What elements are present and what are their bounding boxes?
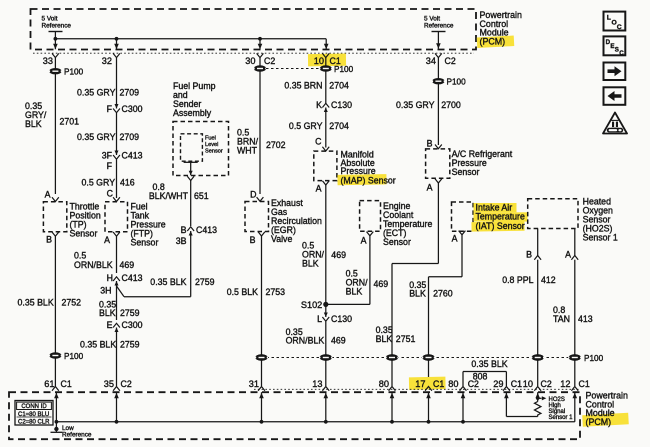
svg-text:469: 469 — [374, 279, 389, 289]
svg-text:2704: 2704 — [329, 81, 349, 91]
svg-text:C2: C2 — [468, 379, 479, 389]
svg-text:C: C — [617, 24, 622, 31]
svg-text:B: B — [46, 235, 52, 245]
wire pin 80 into PCM — [391, 392, 393, 422]
node 5V bus tap pin30 — [258, 37, 262, 41]
svg-text:BLK: BLK — [376, 334, 393, 344]
bottom PCM module box — [9, 392, 580, 439]
svg-text:Sensor: Sensor — [70, 229, 98, 239]
svg-text:TAN: TAN — [553, 314, 570, 324]
wire 0.8 PPL 412 — [537, 260, 539, 386]
svg-text:P100: P100 — [584, 354, 604, 363]
pin 32 terminal — [113, 53, 120, 57]
wire 0.35 GRY/BLK 2701 upper segment — [54, 58, 56, 194]
wire 0.8 BLK/WHT 651 — [190, 181, 192, 227]
ECT sensor box — [360, 201, 381, 232]
svg-text:2700: 2700 — [441, 100, 461, 110]
svg-text:C2=80 CLR: C2=80 CLR — [18, 419, 50, 425]
svg-text:2709: 2709 — [120, 88, 140, 98]
svg-text:C1: C1 — [511, 379, 522, 389]
wire 0.5 ORN/BLK 469 from ECT to S102 — [369, 236, 371, 305]
svg-text:0.35 BLK: 0.35 BLK — [471, 359, 507, 369]
svg-text:Level: Level — [205, 142, 218, 148]
fuel level sensor inner box — [181, 134, 203, 161]
svg-text:3B: 3B — [176, 236, 187, 246]
svg-text:L: L — [317, 314, 322, 324]
svg-text:(PCM): (PCM) — [586, 417, 612, 427]
wire 0.35 GRY 2709 segment 2 — [116, 113, 118, 155]
svg-text:A: A — [104, 235, 110, 245]
pin 33 terminal — [52, 53, 59, 57]
svg-text:0.35 BLK: 0.35 BLK — [18, 298, 54, 308]
svg-text:C2: C2 — [541, 379, 552, 389]
wire 5V ref left drop — [54, 32, 56, 39]
svg-text:BLK: BLK — [25, 119, 42, 129]
svg-text:10: 10 — [523, 379, 533, 389]
svg-text:3H: 3H — [100, 286, 111, 296]
svg-text:(PCM): (PCM) — [480, 36, 506, 46]
svg-text:P100: P100 — [64, 68, 84, 77]
svg-text:10: 10 — [314, 56, 324, 66]
svg-text:0.8 PPL: 0.8 PPL — [502, 275, 533, 285]
svg-text:B: B — [427, 139, 433, 149]
svg-text:B: B — [526, 250, 532, 260]
throttle position sensor U-TP box — [43, 202, 66, 232]
svg-text:31: 31 — [249, 379, 259, 389]
wire 0.35 BLK 2760 (IAT to pin 17) — [461, 235, 463, 277]
svg-text:K: K — [316, 100, 322, 110]
svg-text:2704: 2704 — [329, 121, 349, 131]
svg-text:C413: C413 — [196, 225, 217, 235]
label Powertrain Control Module (PCM) bottom-right, PCM highlighted — [582, 413, 629, 427]
svg-text:C413: C413 — [122, 273, 143, 283]
wire 5V ref drop to pin 34 — [437, 32, 439, 49]
wire fuel level sensor output — [190, 161, 192, 175]
connector P100 on wire 2760 — [422, 354, 435, 360]
svg-text:A: A — [427, 183, 433, 193]
svg-text:2759: 2759 — [120, 308, 140, 318]
svg-text:B: B — [250, 235, 256, 245]
IAT sensor box — [452, 202, 474, 231]
svg-text:F: F — [107, 161, 113, 171]
pin B of HO2S — [537, 229, 539, 257]
svg-text:C300: C300 — [122, 320, 143, 330]
svg-text:P100: P100 — [447, 78, 467, 87]
button DESC — [604, 36, 626, 55]
svg-text:0.35 GRY: 0.35 GRY — [77, 132, 116, 142]
svg-text:30: 30 — [245, 56, 255, 66]
svg-text:469: 469 — [331, 250, 346, 260]
svg-text:F: F — [107, 104, 113, 114]
wire 0.35 GRY 2700 — [437, 58, 439, 145]
svg-text:33: 33 — [43, 56, 53, 66]
svg-text:32: 32 — [102, 56, 112, 66]
wire pin 13 into PCM — [325, 392, 327, 422]
svg-text:17: 17 — [415, 379, 425, 389]
signal tap arrow HO2S High Signal — [536, 397, 539, 400]
wire 0.35 ORN/BLK 469 to pin 13 — [325, 304, 327, 317]
wire 0.35 BLK 2759 from sender — [190, 231, 192, 297]
wire 0.35 BRN 2704 — [325, 58, 327, 104]
svg-text:61: 61 — [44, 379, 54, 389]
pin 17 C1 terminal (highlighted) — [409, 377, 446, 390]
svg-text:Sensor 1: Sensor 1 — [549, 415, 574, 421]
connector P100 on wire 2753 — [255, 354, 268, 360]
wire 0.5 ORN/BLK 469 from FTP — [116, 236, 118, 273]
svg-text:C300: C300 — [122, 104, 143, 114]
connector P100 on wire 2701 — [49, 68, 62, 74]
svg-text:B: B — [181, 225, 187, 235]
wire 5V reference bus — [55, 38, 326, 40]
svg-text:416: 416 — [120, 178, 135, 188]
svg-text:2752: 2752 — [62, 298, 82, 308]
svg-text:Assembly: Assembly — [173, 108, 212, 118]
svg-text:P100: P100 — [64, 352, 84, 361]
label Intake Air Temperature (IAT) Sensor highlighted — [474, 203, 517, 212]
svg-text:BLK: BLK — [346, 287, 363, 297]
svg-text:80: 80 — [379, 379, 389, 389]
node 5V bus tap pin33 — [54, 37, 58, 41]
wire 0.35 BLK 2752 — [54, 236, 56, 386]
5V reference source bar (left) — [49, 31, 63, 33]
wire 0.35 BLK 2759 to pin 35 — [116, 328, 118, 387]
top PCM module box (Powertrain Control Module) — [31, 9, 477, 50]
MAP sensor box — [314, 151, 337, 181]
wire bus drop to pin 33 — [54, 39, 56, 50]
wire 0.8 TAN 413 — [574, 260, 576, 386]
svg-text:Sensor: Sensor — [452, 167, 480, 177]
heated oxygen sensor HO2S box — [528, 199, 578, 229]
fuel pump sender assembly box — [173, 122, 229, 176]
connector P100 on wire 2700 — [432, 78, 445, 84]
svg-text:80: 80 — [448, 379, 458, 389]
wire 0.35 BLK 2759 below 3H — [116, 281, 118, 320]
svg-text:BLK: BLK — [409, 289, 426, 299]
svg-text:34: 34 — [426, 56, 436, 66]
wire splice diagonal into C413 3H — [117, 286, 125, 297]
svg-text:5 Volt: 5 Volt — [42, 16, 58, 23]
svg-text:2701: 2701 — [60, 117, 80, 127]
connector P100 on wire 2751 — [385, 354, 398, 360]
svg-text:C130: C130 — [331, 100, 352, 110]
svg-text:35: 35 — [104, 379, 114, 389]
label Manifold Absolute Pressure (MAP) Sensor, last line highlighted — [337, 174, 386, 185]
connector P100 on wire 2704 — [319, 65, 332, 71]
pin 10 C1 terminal (highlighted) — [308, 53, 346, 66]
svg-text:C1: C1 — [579, 379, 590, 389]
svg-text:Sensor: Sensor — [383, 237, 411, 247]
svg-text:29: 29 — [493, 379, 503, 389]
wire pin 80 C2 into PCM — [462, 392, 464, 422]
pin 34 C2 terminal — [435, 53, 442, 57]
svg-text:WHT: WHT — [237, 146, 258, 156]
svg-text:BLK/WHT: BLK/WHT — [149, 191, 189, 201]
svg-text:CONN ID: CONN ID — [21, 404, 47, 410]
svg-text:2759: 2759 — [120, 340, 140, 350]
svg-text:0.35 BLK: 0.35 BLK — [150, 277, 186, 287]
PCM connector face line (top) — [33, 52, 474, 54]
wire 0.5 BRN/WHT 2702 upper — [259, 58, 261, 194]
svg-text:2760: 2760 — [433, 289, 453, 299]
svg-text:Reference: Reference — [424, 23, 454, 30]
wire pin 61 into PCM — [55, 392, 57, 422]
wire pin 31 into PCM — [261, 392, 263, 422]
svg-text:2753: 2753 — [266, 287, 286, 297]
svg-text:C1: C1 — [61, 379, 72, 389]
pin A of HO2S — [574, 229, 576, 257]
svg-text:C130: C130 — [331, 314, 352, 324]
svg-text:Reference: Reference — [62, 431, 92, 438]
svg-text:C1: C1 — [433, 379, 444, 389]
svg-text:C1=80 BLU: C1=80 BLU — [18, 412, 49, 418]
wire 0.35 BLK 2751 (A/C to pin 80) — [437, 183, 439, 264]
connector P100 on wire 2702 — [253, 65, 266, 71]
wire bus drop to pin 10 — [325, 39, 327, 50]
svg-text:Fuel: Fuel — [205, 136, 216, 142]
svg-text:C2: C2 — [121, 379, 132, 389]
button LOC — [604, 12, 626, 31]
svg-text:Reference: Reference — [42, 23, 72, 30]
connector P100 on wire 413 — [568, 354, 581, 360]
svg-text:2759: 2759 — [195, 277, 215, 287]
svg-text:P100: P100 — [334, 65, 354, 74]
label Powertrain Control Module (PCM) top-right, PCM highlighted — [477, 36, 514, 48]
wire pin 35 into PCM — [116, 392, 118, 422]
svg-text:0.5: 0.5 — [74, 251, 86, 261]
svg-text:C: C — [107, 189, 114, 199]
wire low reference bus inside PCM — [56, 421, 574, 423]
svg-text:0.5 BLK: 0.5 BLK — [227, 287, 258, 297]
svg-text:BLK: BLK — [302, 259, 319, 269]
button next (right arrow) — [604, 63, 626, 81]
wire 0.35 GRY 2709 segment 1 — [116, 58, 118, 109]
svg-text:Sensor 1: Sensor 1 — [583, 233, 618, 243]
svg-text:S102: S102 — [301, 300, 322, 310]
svg-text:0.35 BLK: 0.35 BLK — [80, 340, 116, 350]
svg-text:Sensor: Sensor — [131, 238, 159, 248]
svg-text:D: D — [250, 190, 256, 200]
svg-text:C413: C413 — [122, 151, 143, 161]
svg-text:0.5 GRY: 0.5 GRY — [82, 178, 116, 188]
wire bus drop to pin 30 — [259, 39, 261, 50]
svg-text:Sensor: Sensor — [205, 149, 223, 155]
OBD II logo triangle — [603, 113, 627, 134]
svg-text:(MAP) Sensor: (MAP) Sensor — [341, 175, 396, 185]
wire 0.5 GRY 416 — [116, 160, 118, 199]
svg-text:3F: 3F — [102, 151, 113, 161]
node 5V bus tap pin32 — [115, 37, 119, 41]
svg-text:ORN/BLK: ORN/BLK — [74, 260, 113, 270]
wire pin 29 to resistor low side — [505, 392, 507, 416]
fuel level sensor output bar — [184, 161, 198, 163]
connector P100 dashed gang line (bottom) — [262, 357, 575, 359]
svg-text:Valve: Valve — [271, 234, 292, 244]
svg-text:469: 469 — [120, 260, 135, 270]
wire 0.5 GRY 2704 — [325, 108, 327, 148]
pin terminal below sender assembly — [187, 176, 194, 180]
HO2S bias resistor — [535, 402, 541, 417]
jumper wire 0.35 BLK 808 pins 80C2-29C1 — [462, 372, 464, 387]
svg-text:A: A — [45, 190, 51, 200]
svg-text:H: H — [107, 273, 113, 283]
svg-text:BLK: BLK — [99, 308, 116, 318]
wire 0.5 BLK 2753 — [261, 236, 263, 386]
svg-text:C2: C2 — [445, 56, 456, 66]
low reference ground tap — [55, 422, 57, 429]
button back (left arrow) — [604, 87, 626, 105]
svg-text:0.35 GRY: 0.35 GRY — [396, 100, 435, 110]
svg-text:A: A — [316, 184, 322, 194]
svg-text:ORN/BLK: ORN/BLK — [286, 336, 325, 346]
svg-text:469: 469 — [331, 336, 346, 346]
svg-text:413: 413 — [578, 314, 593, 324]
svg-text:A: A — [565, 250, 571, 260]
wire 0.5 ORN/BLK 469 from MAP — [325, 185, 327, 304]
svg-text:13: 13 — [312, 379, 322, 389]
svg-text:C: C — [315, 137, 322, 147]
svg-text:651: 651 — [194, 191, 209, 201]
connector P100 dashed link — [266, 68, 320, 70]
svg-text:(IAT) Sensor: (IAT) Sensor — [476, 221, 525, 231]
5V reference source bar (right) — [432, 31, 446, 33]
fuel tank pressure sensor U-FTP box — [105, 202, 128, 232]
svg-text:E: E — [107, 320, 113, 330]
EGR valve box — [245, 202, 269, 232]
wire pin 17 into PCM — [428, 392, 430, 422]
svg-text:5 Volt: 5 Volt — [424, 16, 440, 23]
connector P100 on wire 469 — [319, 354, 332, 360]
svg-text:A: A — [361, 236, 367, 246]
svg-text:12: 12 — [560, 379, 570, 389]
svg-text:2702: 2702 — [266, 140, 286, 150]
connector P100 on wire 2752 — [49, 352, 62, 358]
svg-text:C: C — [619, 50, 624, 57]
A/C refrigerant pressure sensor box — [426, 149, 450, 178]
svg-text:L: L — [607, 15, 611, 22]
svg-text:0.35 BRN: 0.35 BRN — [284, 81, 322, 91]
pin 30 C2 terminal — [257, 53, 264, 57]
svg-text:2751: 2751 — [396, 334, 416, 344]
CONN ID table — [15, 401, 53, 426]
wire pin 10 to resistor — [537, 392, 539, 401]
svg-text:A: A — [452, 234, 458, 244]
svg-text:0.35 GRY: 0.35 GRY — [77, 88, 116, 98]
svg-text:2709: 2709 — [120, 132, 140, 142]
wire bus drop to pin 32 — [116, 39, 118, 50]
wire pin 12 to low reference bus — [574, 392, 576, 422]
svg-text:412: 412 — [541, 275, 556, 285]
svg-text:0.5 GRY: 0.5 GRY — [289, 121, 323, 131]
PCM connector face line (bottom) — [254, 388, 580, 390]
svg-text:C2: C2 — [264, 56, 275, 66]
connector P100 on wire 412 — [531, 354, 544, 360]
